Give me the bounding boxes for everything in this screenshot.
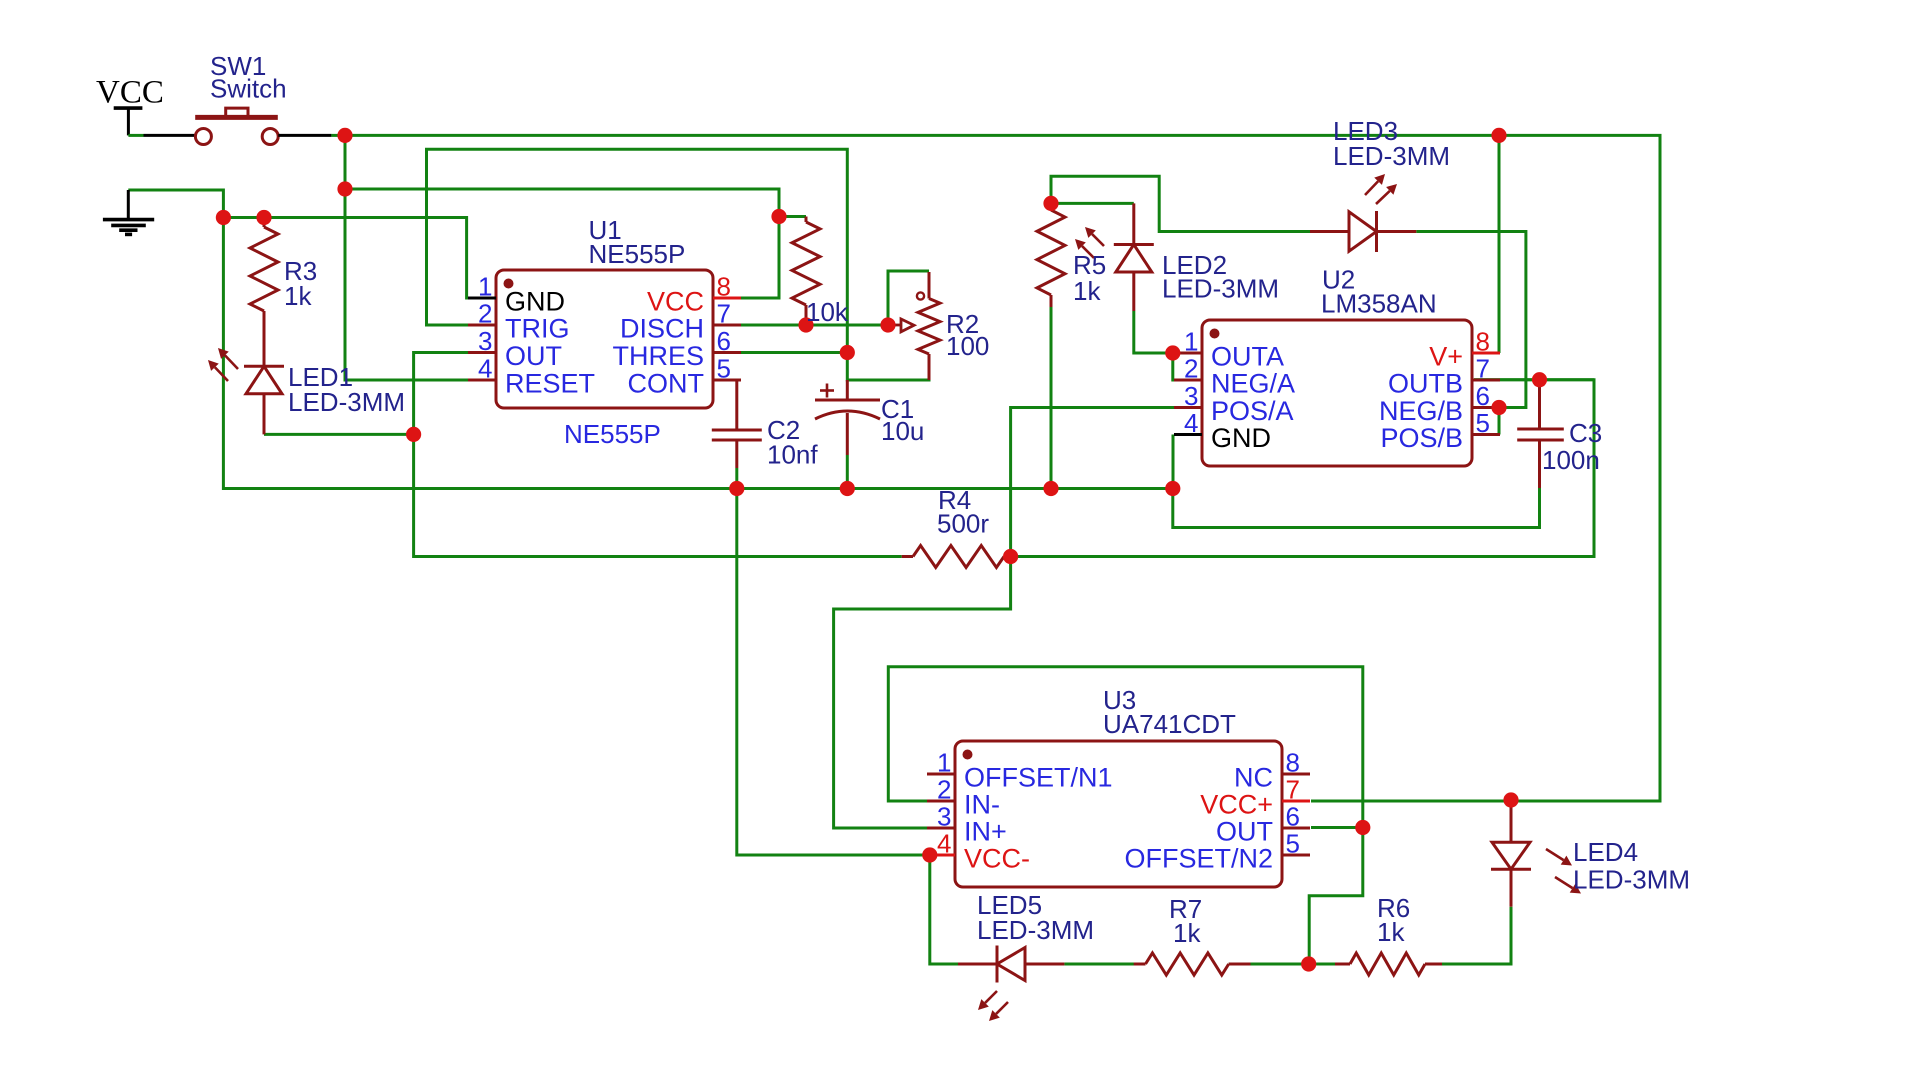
pin number 6 U1 (717, 326, 731, 356)
wire U2 POS/A pin 3 down to R4 node (1011, 408, 1174, 557)
svg-text:5: 5 (1476, 408, 1490, 438)
wire U2 NEG/B node to POS/B pin 5 (1498, 408, 1501, 435)
label R4 designator (938, 485, 971, 515)
pin name CONT U1 (628, 369, 705, 399)
pin 6 stub U2 (1472, 406, 1500, 409)
svg-text:10u: 10u (881, 416, 924, 446)
pin 2 stub U3 (927, 800, 955, 803)
pin 5 stub U3 (1282, 854, 1310, 857)
pin name NEG/A U2 (1211, 369, 1295, 399)
svg-text:TRIG: TRIG (505, 314, 570, 344)
pin 4 stub U3 (927, 854, 955, 857)
junction VCC/10k/U1 pin8 (771, 209, 786, 224)
svg-text:6: 6 (1476, 381, 1490, 411)
svg-text:DISCH: DISCH (620, 314, 704, 344)
junction SW1/top rail (337, 128, 352, 143)
wire U1 OUT pin 3 down to R4 (414, 353, 902, 557)
wire GND-rail C2 node down to U3 VCC- pin 4 (737, 489, 930, 856)
op-amp U3 (955, 741, 1282, 887)
label R2 designator (946, 309, 979, 339)
pin name TRIG U1 (505, 314, 570, 344)
junction R5/GND rail (1043, 481, 1058, 496)
pin 2 stub U2 (1174, 379, 1202, 382)
LED LED1 (208, 348, 284, 434)
junction top rail/U2 V+ (1491, 128, 1506, 143)
label LED5 package (977, 915, 1094, 945)
pin number 1 U2 (1184, 327, 1198, 357)
label LED3 designator (1333, 116, 1398, 146)
pin 8 stub U2 (1472, 352, 1500, 355)
svg-text:LED-3MM: LED-3MM (1573, 865, 1690, 895)
pin 1 stub U1 (468, 297, 496, 300)
pin name OUTB U2 (1388, 369, 1463, 399)
wire LED1 cathode-bottom to OUT node (264, 433, 414, 436)
pin 3 stub U2 (1174, 406, 1202, 409)
label LED3 package (1333, 141, 1450, 171)
pin name OUT U3 (1216, 817, 1273, 847)
svg-text:2: 2 (1184, 354, 1198, 384)
junction THRES node (840, 345, 855, 360)
resistor R4 (902, 546, 1011, 568)
LED LED2 (1075, 203, 1154, 311)
wire R4 right to U2 OUTB pin 7 (1011, 380, 1594, 557)
svg-text:1k: 1k (1377, 917, 1405, 947)
pin name GND U1 (505, 287, 565, 317)
wire U2 GND pin 4 down to GND rail (1172, 435, 1175, 489)
wire U1 TRIG pin 2 loop to THRES node (427, 149, 930, 380)
svg-text:POS/A: POS/A (1211, 396, 1294, 426)
svg-text:VCC: VCC (647, 287, 704, 317)
wire SW1 junction down to second junction (344, 135, 347, 189)
label R7 designator (1169, 894, 1202, 924)
svg-text:6: 6 (1286, 802, 1300, 832)
resistor R5 (1037, 210, 1065, 307)
svg-text:100: 100 (946, 331, 989, 361)
svg-text:OFFSET/N2: OFFSET/N2 (1124, 844, 1273, 874)
label C1 value (881, 416, 924, 446)
label LED2 package (1162, 274, 1279, 304)
wire R7 to R6 junction (1229, 963, 1335, 966)
pin 4 stub U2 (1174, 433, 1202, 436)
capacitor C2 (712, 380, 762, 468)
power flag VCC (114, 108, 143, 135)
wire VCC to switch (black) (128, 134, 195, 137)
junction U3 OUT pin6 (1355, 820, 1370, 835)
label LED4 designator (1573, 837, 1638, 867)
wire R4 node to U3 IN+ pin 3 (834, 557, 1011, 829)
label 10k value (806, 297, 849, 327)
svg-text:6: 6 (717, 326, 731, 356)
pin number 5 U3 (1286, 829, 1300, 859)
timer IC U1 (496, 270, 713, 408)
wire C2 bottom to GND rail (735, 468, 738, 489)
svg-text:IN-: IN- (964, 790, 1000, 820)
label R5 value (1073, 276, 1101, 306)
LED LED5 (958, 946, 1064, 1022)
svg-text:UA741CDT: UA741CDT (1103, 709, 1236, 739)
pin name NC U3 (1234, 763, 1273, 793)
svg-text:IN+: IN+ (964, 817, 1007, 847)
svg-text:4: 4 (937, 829, 951, 859)
pin 7 stub U2 (1472, 379, 1500, 382)
pin number 4 U1 (478, 354, 492, 384)
svg-text:10nf: 10nf (767, 440, 818, 470)
pin name GND U2 (1211, 423, 1271, 453)
resistor 10k (792, 217, 820, 326)
resistor R7 (1134, 953, 1251, 975)
label U3 part (1103, 709, 1236, 739)
label U2 part (1321, 289, 1437, 319)
junction C1/GND rail (840, 481, 855, 496)
svg-text:NC: NC (1234, 763, 1273, 793)
label U1 part (589, 239, 686, 269)
pin name VCC U1 (647, 287, 704, 317)
pin number 7 U1 (717, 299, 731, 329)
junction R2 wiper (880, 317, 895, 332)
pin name THRES U1 (612, 341, 704, 371)
wire U1 DISCH pin 7 to R2 wiper (741, 324, 888, 327)
wire VCC branch to U1 RESET pin 4 (345, 189, 468, 380)
pin 1 stub U3 (927, 773, 955, 776)
wire VCC branch to 10k resistor column (345, 189, 779, 217)
svg-text:VCC+: VCC+ (1200, 790, 1273, 820)
svg-text:500r: 500r (937, 509, 989, 539)
wire U3 OUT down to R7/R6 junction (1309, 828, 1363, 965)
pin name POS/A U2 (1211, 396, 1294, 426)
pin 3 stub U1 (468, 351, 496, 354)
label R4 value (937, 509, 989, 539)
pin number 2 U3 (937, 775, 951, 805)
label U2 designator (1322, 265, 1355, 295)
wire GND rail jog to C3 bottom (1173, 488, 1540, 528)
wire U2 OUTA node to NEG/A pin 2 (1173, 353, 1174, 380)
pin number 8 U3 (1286, 748, 1300, 778)
svg-text:3: 3 (937, 802, 951, 832)
svg-text:OUT: OUT (1216, 817, 1273, 847)
pin number 2 U2 (1184, 354, 1198, 384)
wire C1 bottom to GND rail (846, 455, 849, 489)
resistor R3 (250, 218, 278, 367)
svg-text:100n: 100n (1542, 445, 1600, 475)
pin 2 stub U1 (468, 324, 496, 327)
svg-text:4: 4 (478, 354, 492, 384)
label U1 footprint (564, 419, 661, 449)
label C2 designator (767, 415, 800, 445)
wire U3 OUT pin 6 feedback loop to IN- pin 2 (888, 667, 1363, 828)
label R6 value (1377, 917, 1405, 947)
svg-text:8: 8 (717, 272, 731, 302)
label LED5 designator (977, 890, 1042, 920)
wire R6 to LED4 cathode (1442, 907, 1511, 964)
LED LED4 (1491, 800, 1581, 907)
svg-text:LM358AN: LM358AN (1321, 289, 1437, 319)
label R7 value (1173, 918, 1201, 948)
junction U2 GND/C3/GND rail (1165, 481, 1180, 496)
svg-text:OUTB: OUTB (1388, 369, 1463, 399)
label C2 value (767, 440, 818, 470)
svg-text:GND: GND (1211, 423, 1271, 453)
label R3 designator (284, 256, 317, 286)
wire R5 top node up-over to LED2 column (1051, 176, 1310, 231)
svg-text:1k: 1k (1173, 918, 1201, 948)
pin 6 stub U1 (713, 351, 741, 354)
label C1 designator (881, 394, 914, 424)
label U1 designator (589, 215, 622, 245)
pin name V+ U2 (1429, 342, 1463, 372)
svg-text:RESET: RESET (505, 369, 595, 399)
svg-text:VCC: VCC (96, 75, 164, 111)
wire U1 THRES pin 6 to node (741, 351, 847, 354)
label LED4 package (1573, 865, 1690, 895)
pin number 7 U2 (1476, 354, 1490, 384)
pin 8 stub U3 (1282, 773, 1310, 776)
pin number 2 U1 (478, 299, 492, 329)
wire VCC net: switch to top-right corner down to U3 VCC+ (345, 135, 1660, 801)
svg-text:V+: V+ (1429, 342, 1463, 372)
pin-1 marker U3 (963, 750, 973, 760)
pin number 6 U3 (1286, 802, 1300, 832)
pin number 1 U1 (478, 272, 492, 302)
wire ground rail to U1 pin 1 (223, 218, 470, 299)
capacitor C1 (815, 380, 880, 455)
label C3 value (1542, 445, 1600, 475)
label U3 designator (1103, 685, 1136, 715)
pin name NEG/B U2 (1379, 396, 1463, 426)
pin-1 marker U1 (504, 279, 514, 289)
pin 6 stub U3 (1282, 827, 1310, 830)
label SW1 value (210, 74, 287, 104)
svg-text:8: 8 (1286, 748, 1300, 778)
pin name POS/B U2 (1380, 423, 1463, 453)
pin 4 stub U1 (468, 379, 496, 382)
wire switch to junction (black) (278, 134, 345, 137)
label C3 designator (1569, 418, 1602, 448)
pin name OFFSET/N2 U3 (1124, 844, 1273, 874)
svg-text:THRES: THRES (612, 341, 704, 371)
junction R7/R6 node (1301, 956, 1316, 971)
pin 7 stub U1 (713, 324, 741, 327)
svg-text:1: 1 (937, 748, 951, 778)
junction R5 top/LED2 (1043, 196, 1058, 211)
wire U2 OUTB pin 7 to C3 top node (1474, 378, 1594, 381)
svg-text:7: 7 (717, 299, 731, 329)
svg-text:Switch: Switch (210, 74, 287, 104)
pin 8 stub U1 (713, 297, 741, 300)
pin name OUT U1 (505, 341, 562, 371)
pin name IN- U3 (964, 790, 1000, 820)
junction LED1/OUT node (406, 427, 421, 442)
pin name OUTA U2 (1211, 342, 1284, 372)
svg-text:4: 4 (1184, 408, 1198, 438)
svg-text:5: 5 (717, 354, 731, 384)
label LED2 designator (1162, 250, 1227, 280)
VCC net label (96, 75, 164, 111)
svg-text:1k: 1k (1073, 276, 1101, 306)
svg-text:3: 3 (1184, 381, 1198, 411)
label LED1 designator (288, 362, 353, 392)
svg-text:POS/B: POS/B (1380, 423, 1463, 453)
svg-text:NEG/B: NEG/B (1379, 396, 1463, 426)
wire U1 VCC pin 8 to 10k node (741, 217, 779, 299)
pin-1 marker U2 (1210, 329, 1220, 339)
label R6 designator (1377, 893, 1410, 923)
wire U3 VCC- node down to LED5 anode (930, 855, 958, 964)
pin number 4 U3 (937, 829, 951, 859)
pin 5 stub U1 (713, 379, 741, 382)
pin number 8 U1 (717, 272, 731, 302)
pin name DISCH U1 (620, 314, 704, 344)
resistor R6 (1335, 953, 1442, 975)
svg-text:1k: 1k (284, 281, 312, 311)
wire R5 bottom to GND rail (1050, 296, 1053, 489)
switch SW1 (195, 108, 278, 144)
wire LED3 cathode to U2 NEG/B pin 6 (1416, 232, 1526, 408)
pin name IN+ U3 (964, 817, 1007, 847)
junction U2 OUTA pin1 (1165, 345, 1180, 360)
svg-text:LED-3MM: LED-3MM (288, 387, 405, 417)
svg-text:5: 5 (1286, 829, 1300, 859)
op-amp U2 (1202, 320, 1472, 466)
junction U3 VCC- pin4 (922, 847, 937, 862)
wire top rail down to U2 V+ pin 8 (1498, 135, 1501, 353)
svg-text:LED-3MM: LED-3MM (1162, 274, 1279, 304)
svg-text:VCC-: VCC- (964, 844, 1030, 874)
junction R3 top (256, 210, 271, 225)
svg-text:OUT: OUT (505, 341, 562, 371)
pin name VCC- U3 (964, 844, 1030, 874)
pin 3 stub U3 (927, 827, 955, 830)
wire R5 top node to LED2 cathode (1051, 202, 1134, 205)
pin number 3 U1 (478, 326, 492, 356)
junction R4 right node (1003, 549, 1018, 564)
label LED1 package (288, 387, 405, 417)
potentiometer R2 (893, 272, 940, 380)
wire 10k top lead connect (779, 215, 806, 218)
svg-text:NE555P: NE555P (564, 419, 661, 449)
svg-text:1: 1 (478, 272, 492, 302)
svg-text:GND: GND (505, 287, 565, 317)
svg-text:LED-3MM: LED-3MM (1333, 141, 1450, 171)
junction ground rail left (216, 210, 231, 225)
svg-text:7: 7 (1476, 354, 1490, 384)
pin name VCC+ U3 (1200, 790, 1273, 820)
label SW1 designator (210, 51, 266, 81)
label R3 value (284, 281, 312, 311)
pin number 3 U2 (1184, 381, 1198, 411)
junction OUTB/C3 top (1532, 372, 1547, 387)
pin 1 stub U2 (1174, 352, 1202, 355)
pin number 4 U2 (1184, 408, 1198, 438)
svg-text:OFFSET/N1: OFFSET/N1 (964, 763, 1113, 793)
LED LED3 (1310, 174, 1416, 252)
junction VCC branch (337, 181, 352, 196)
capacitor C3 (1517, 380, 1564, 488)
pin name RESET U1 (505, 369, 595, 399)
wire R2 wiper tie to top terminal (888, 271, 929, 325)
svg-text:LED-3MM: LED-3MM (977, 915, 1094, 945)
label R2 value (946, 331, 989, 361)
svg-text:C3: C3 (1569, 418, 1602, 448)
label R5 designator (1073, 250, 1106, 280)
svg-text:2: 2 (478, 299, 492, 329)
pin 5 stub U2 (1472, 433, 1500, 436)
svg-text:LED4: LED4 (1573, 837, 1638, 867)
svg-text:8: 8 (1476, 327, 1490, 357)
svg-text:2: 2 (937, 775, 951, 805)
wire LED2 anode to U2 OUTA pin 1 (1134, 311, 1173, 353)
svg-text:10k: 10k (806, 297, 849, 327)
junction C2/GND rail (729, 481, 744, 496)
pin number 5 U1 (717, 354, 731, 384)
svg-text:CONT: CONT (628, 369, 705, 399)
junction 10k bottom/DISCH (798, 317, 813, 332)
svg-text:3: 3 (478, 326, 492, 356)
svg-text:NEG/A: NEG/A (1211, 369, 1295, 399)
wire LED5 cathode to R7 (1064, 963, 1145, 966)
pin number 1 U3 (937, 748, 951, 778)
wire ground to U1 GND pin 1 (128, 190, 223, 218)
ground (103, 190, 154, 234)
pin number 6 U2 (1476, 381, 1490, 411)
pin name OFFSET/N1 U3 (964, 763, 1113, 793)
wire GND rail (223, 218, 1172, 489)
pin number 5 U2 (1476, 408, 1490, 438)
pin number 7 U3 (1286, 775, 1300, 805)
svg-text:OUTA: OUTA (1211, 342, 1284, 372)
junction LED4 top (1503, 792, 1518, 807)
pin 7 stub U3 (1282, 800, 1310, 803)
svg-text:NE555P: NE555P (589, 239, 686, 269)
svg-text:1: 1 (1184, 327, 1198, 357)
pin number 8 U2 (1476, 327, 1490, 357)
pin number 3 U3 (937, 802, 951, 832)
junction U2 NEG/B pin6 (1491, 400, 1506, 415)
svg-text:7: 7 (1286, 775, 1300, 805)
